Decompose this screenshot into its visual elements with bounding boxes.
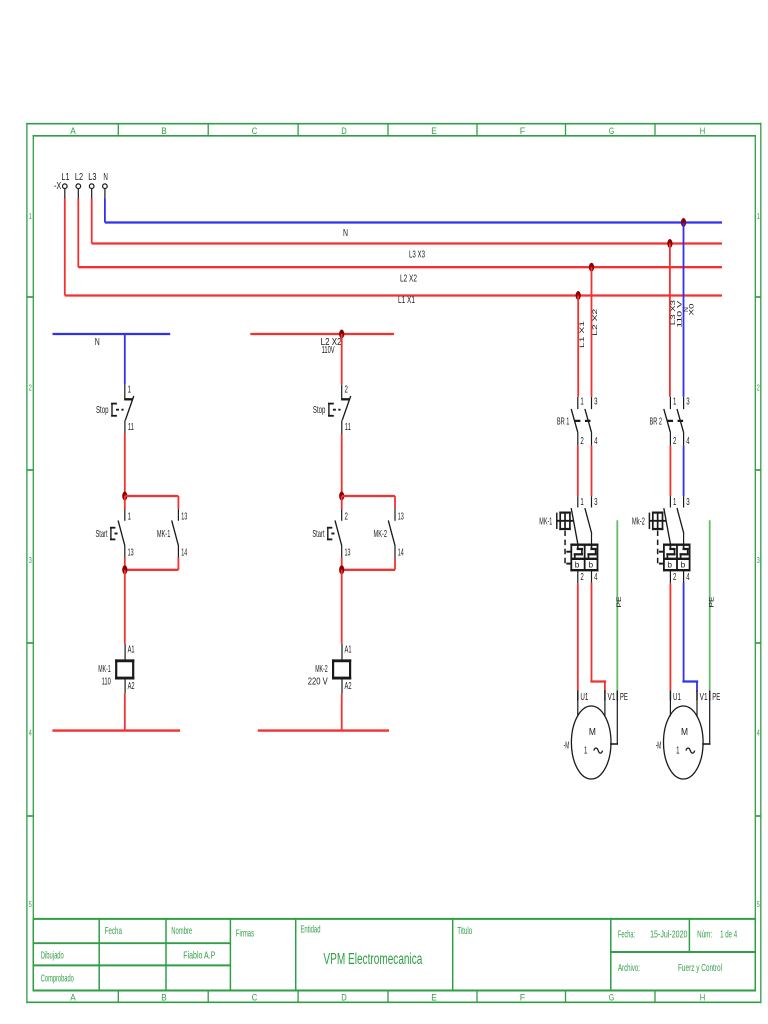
svg-text:2: 2 bbox=[29, 383, 32, 393]
wire Start to lower junction bbox=[124, 558, 126, 570]
title block outline bbox=[33, 918, 757, 920]
wire aux branch to lower junction bbox=[177, 558, 179, 570]
svg-text:N: N bbox=[343, 228, 348, 239]
wire junction to coil bbox=[124, 570, 126, 644]
contactor coil MK-2 pin A2 bbox=[341, 678, 343, 693]
contactor Mk-2 blade pole 1 bbox=[664, 508, 671, 545]
title block row lines left bbox=[33, 942, 230, 944]
motor terminal PE bbox=[616, 691, 618, 701]
contactor coil MK-1 box bbox=[115, 659, 134, 662]
motor lead U1 bbox=[669, 701, 671, 717]
svg-text:1: 1 bbox=[757, 211, 760, 221]
pushbutton Start blade bbox=[118, 520, 125, 546]
svg-text:H: H bbox=[700, 126, 706, 136]
junction on L3 X3 bus bbox=[667, 239, 672, 248]
motor lead PE bbox=[709, 701, 711, 745]
junction on L2 X2 bus bbox=[589, 263, 594, 272]
wire overload to motor U1 bbox=[577, 583, 579, 690]
svg-text:4: 4 bbox=[594, 436, 598, 447]
thermal overload heater element pole 1 bbox=[669, 545, 671, 549]
svg-text:4: 4 bbox=[686, 572, 690, 583]
thermal overload pin 2 bbox=[577, 570, 579, 583]
svg-text:B: B bbox=[161, 126, 167, 136]
control bus top (L2 X2) bbox=[250, 333, 394, 335]
thermal overload heater element pole 2 bbox=[683, 545, 685, 549]
motor lead V1 bbox=[696, 701, 698, 717]
svg-text:Fiablo A.P: Fiablo A.P bbox=[183, 951, 215, 962]
svg-text:X0: X0 bbox=[689, 303, 696, 316]
wire Stop to junction bbox=[124, 434, 126, 496]
bus N horizontal bbox=[105, 221, 722, 223]
pushbutton Stop bottom lead pin 11 bbox=[341, 420, 343, 434]
wire bus to Stop bbox=[341, 334, 343, 385]
junction on control bus bbox=[339, 330, 344, 339]
svg-text:110: 110 bbox=[102, 677, 111, 688]
svg-text:U1: U1 bbox=[580, 692, 588, 703]
svg-text:13: 13 bbox=[345, 547, 351, 558]
svg-text:G: G bbox=[609, 992, 615, 1002]
svg-text:b: b bbox=[667, 559, 672, 569]
pushbutton Stop blade bbox=[125, 396, 134, 420]
auxiliary contact MK-1 pin 13 bbox=[177, 509, 179, 521]
wire L1 X1 drop to BR 1 bbox=[577, 296, 579, 397]
breaker BR 2 linkage bbox=[668, 420, 684, 422]
svg-text:14: 14 bbox=[181, 547, 187, 558]
motor terminal U1 bbox=[577, 691, 579, 701]
junction on L1 X1 bus bbox=[576, 291, 581, 300]
svg-text:Nombre: Nombre bbox=[171, 926, 192, 937]
control bus bottom bbox=[52, 729, 180, 731]
svg-text:VPM Electromecanica: VPM Electromecanica bbox=[323, 951, 422, 968]
wire overload to motor U1 bbox=[669, 583, 671, 690]
svg-text:F: F bbox=[520, 992, 526, 1002]
svg-text:Comprobado: Comprobado bbox=[41, 974, 74, 985]
svg-text:1 de 4: 1 de 4 bbox=[720, 930, 737, 941]
svg-text:MK-1: MK-1 bbox=[539, 516, 552, 527]
svg-text:11: 11 bbox=[345, 422, 351, 433]
breaker BR 1 pole 2 pin 3 bbox=[591, 397, 593, 409]
wire PE protective earth bbox=[616, 520, 618, 690]
wire breaker to contactor pole 1 bbox=[669, 446, 671, 497]
contactor MK-1 blade pole 2 bbox=[585, 508, 592, 533]
svg-text:3: 3 bbox=[686, 497, 690, 508]
wire coil to bottom bus bbox=[124, 693, 126, 730]
contactor coil MK-1 pin A1 bbox=[124, 644, 126, 661]
title block row line right bbox=[611, 951, 756, 953]
row divider ticks right band bbox=[755, 296, 761, 298]
svg-text:3: 3 bbox=[594, 497, 598, 508]
pushbutton Start (NO) pin 2 bbox=[341, 509, 343, 521]
auxiliary contact MK-2 blade bbox=[388, 520, 395, 546]
svg-text:13: 13 bbox=[398, 511, 404, 522]
breaker BR 1 blade pole 1 bbox=[571, 409, 578, 433]
svg-text:A: A bbox=[70, 992, 76, 1002]
pushbutton Stop bottom lead pin 11 bbox=[124, 420, 126, 434]
auxiliary contact MK-2 pin 13 bbox=[394, 509, 396, 521]
motor lead U1 bbox=[577, 701, 579, 717]
breaker BR 2 pole 2 pin 3 bbox=[683, 397, 685, 409]
contactor Mk-2 trip linkage dashed bbox=[657, 531, 659, 564]
svg-text:13: 13 bbox=[181, 511, 187, 522]
svg-text:E: E bbox=[431, 126, 437, 136]
svg-text:1: 1 bbox=[29, 211, 32, 221]
svg-text:C: C bbox=[252, 126, 258, 136]
svg-text:M: M bbox=[589, 727, 596, 738]
contactor Mk-2 blade pole 2 bbox=[677, 508, 684, 533]
wire L1 vertical from terminal bbox=[64, 199, 66, 296]
wire L2 vertical from terminal bbox=[77, 199, 79, 268]
bus L2 X2 horizontal bbox=[78, 266, 722, 268]
svg-text:4: 4 bbox=[686, 436, 690, 447]
svg-text:L3 X3: L3 X3 bbox=[409, 250, 425, 261]
svg-text:BR 2: BR 2 bbox=[650, 416, 663, 427]
pushbutton Start bottom lead pin 13 bbox=[341, 546, 343, 558]
auxiliary contact MK-1 blade bbox=[172, 520, 179, 546]
svg-text:4: 4 bbox=[29, 728, 32, 738]
pushbutton Start blade bbox=[335, 520, 342, 546]
wire aux branch to lower junction bbox=[394, 558, 396, 570]
breaker BR 2 pin 4 bbox=[683, 433, 685, 446]
motor terminal V1 bbox=[696, 691, 698, 701]
wire junction to aux branch bbox=[342, 495, 395, 497]
auxiliary contact MK-1 pin 14 bbox=[177, 546, 179, 558]
svg-text:Mk-2: Mk-2 bbox=[632, 516, 645, 527]
svg-text:b: b bbox=[681, 559, 686, 569]
pushbutton Start actuator bbox=[328, 527, 332, 529]
svg-text:4: 4 bbox=[757, 728, 760, 738]
svg-text:E: E bbox=[431, 992, 437, 1002]
svg-text:A2: A2 bbox=[128, 681, 135, 692]
svg-text:L1: L1 bbox=[61, 172, 69, 183]
pushbutton Start bottom lead pin 13 bbox=[124, 546, 126, 558]
wire PE protective earth bbox=[709, 520, 711, 690]
svg-text:L3: L3 bbox=[88, 172, 96, 183]
svg-text:D: D bbox=[341, 126, 347, 136]
thermal overload heater element pole 2 bbox=[591, 545, 593, 549]
contactor MK-1 operator box bbox=[556, 513, 558, 529]
motor lead PE bbox=[616, 701, 618, 745]
svg-text:MK-2: MK-2 bbox=[374, 529, 388, 540]
svg-text:Núm:: Núm: bbox=[697, 930, 712, 941]
pushbutton Stop actuator bbox=[112, 403, 116, 405]
breaker BR 2 pin 2 bbox=[669, 433, 671, 446]
contactor MK-1 blade pole 1 bbox=[571, 508, 578, 545]
svg-text:3: 3 bbox=[29, 555, 32, 565]
contactor Mk-2 pole 2 pin 3 bbox=[683, 496, 685, 507]
svg-text:B: B bbox=[161, 992, 167, 1002]
breaker BR 1 pole 1 pin 1 bbox=[577, 397, 579, 409]
contactor MK-1 pole 2 pin 3 bbox=[591, 496, 593, 507]
svg-text:1: 1 bbox=[673, 497, 677, 508]
motor lead V1 bbox=[604, 701, 606, 717]
wire coil to bottom bus bbox=[341, 693, 343, 730]
title block divider Num cell bbox=[688, 919, 690, 952]
svg-text:PE: PE bbox=[620, 692, 628, 703]
svg-text:1: 1 bbox=[673, 397, 677, 408]
svg-text:C: C bbox=[252, 992, 258, 1002]
row divider ticks left band bbox=[27, 296, 33, 298]
svg-text:Stop: Stop bbox=[96, 405, 109, 416]
svg-text:Stop: Stop bbox=[313, 405, 326, 416]
svg-text:A1: A1 bbox=[345, 644, 352, 655]
svg-text:V1: V1 bbox=[608, 692, 616, 703]
wire bus to Stop bbox=[124, 334, 126, 385]
svg-text:U1: U1 bbox=[673, 692, 681, 703]
column divider ticks top band bbox=[117, 124, 119, 136]
junction node above Start bbox=[339, 492, 344, 501]
page border outer frame bbox=[26, 123, 761, 125]
junction on N bus bbox=[681, 218, 686, 227]
wire junction down bbox=[341, 496, 343, 509]
svg-text:1: 1 bbox=[580, 397, 584, 408]
svg-text:MK-1: MK-1 bbox=[98, 664, 111, 675]
svg-text:F: F bbox=[520, 126, 526, 136]
breaker BR 1 blade pole 2 bbox=[585, 409, 592, 433]
svg-text:G: G bbox=[609, 126, 615, 136]
wire L3 vertical from terminal bbox=[91, 199, 93, 244]
svg-text:110V: 110V bbox=[322, 345, 335, 356]
pushbutton Stop actuator bbox=[329, 403, 333, 405]
svg-text:Archivo:: Archivo: bbox=[618, 963, 640, 974]
wire breaker to contactor pole 2 bbox=[683, 446, 685, 497]
wire breaker to contactor pole 1 bbox=[577, 446, 579, 497]
breaker BR 2 blade pole 1 bbox=[664, 409, 671, 433]
svg-text:1: 1 bbox=[584, 745, 588, 756]
motor terminal U1 bbox=[669, 691, 671, 701]
svg-text:2: 2 bbox=[757, 383, 760, 393]
svg-text:2: 2 bbox=[345, 511, 349, 522]
svg-text:3: 3 bbox=[686, 397, 690, 408]
svg-text:N: N bbox=[103, 172, 108, 183]
svg-text:3: 3 bbox=[594, 397, 598, 408]
svg-text:15-Jul-2020: 15-Jul-2020 bbox=[650, 930, 688, 941]
svg-text:L1 X1: L1 X1 bbox=[398, 295, 415, 306]
column divider ticks bottom band bbox=[117, 991, 119, 1003]
thermal overload pin 4 bbox=[591, 570, 593, 583]
wire junction down bbox=[124, 496, 126, 509]
svg-text:L2 X2: L2 X2 bbox=[592, 308, 599, 336]
svg-text:D: D bbox=[341, 992, 347, 1002]
svg-text:b: b bbox=[575, 559, 580, 569]
pushbutton Stop (NC) pin 2 bbox=[341, 385, 343, 400]
svg-text:M: M bbox=[681, 727, 688, 738]
wire overload to motor V1 bbox=[683, 583, 685, 681]
thermal overload relay box bbox=[570, 544, 598, 546]
breaker BR 1 linkage bbox=[575, 420, 591, 422]
svg-text:L2: L2 bbox=[75, 172, 83, 183]
wire N vertical from terminal bbox=[104, 199, 106, 223]
wire breaker to contactor pole 2 bbox=[591, 446, 593, 497]
svg-text:PE: PE bbox=[712, 692, 720, 703]
svg-text:A2: A2 bbox=[345, 681, 352, 692]
pushbutton Stop (NC) pin 1 bbox=[124, 385, 126, 400]
svg-text:Start: Start bbox=[312, 529, 324, 540]
control bus top (N) bbox=[53, 333, 171, 335]
svg-text:MK-1: MK-1 bbox=[157, 529, 171, 540]
svg-text:b: b bbox=[589, 559, 594, 569]
pushbutton Stop blade bbox=[342, 396, 351, 420]
contactor coil MK-2 pin A1 bbox=[341, 644, 343, 661]
svg-text:1: 1 bbox=[128, 385, 132, 396]
svg-text:Entidad: Entidad bbox=[301, 925, 321, 936]
svg-text:MK-2: MK-2 bbox=[315, 664, 328, 675]
thermal overload pin 2 bbox=[669, 570, 671, 583]
breaker BR 2 pole 1 pin 1 bbox=[669, 397, 671, 409]
contactor coil MK-2 box bbox=[332, 659, 351, 662]
contactor MK-1 pole 1 pin 1 bbox=[577, 496, 579, 507]
svg-text:2: 2 bbox=[345, 385, 349, 396]
svg-text:1: 1 bbox=[676, 745, 680, 756]
bus L3 X3 horizontal bbox=[92, 242, 722, 244]
motor terminal PE bbox=[709, 691, 711, 701]
thermal overload relay box bbox=[663, 544, 691, 546]
wire L2 X2 drop to BR 1 bbox=[591, 267, 593, 397]
svg-text:14: 14 bbox=[398, 547, 404, 558]
svg-text:L2 X2: L2 X2 bbox=[400, 274, 417, 285]
svg-text:Dibujado: Dibujado bbox=[41, 951, 64, 962]
svg-text:-M: -M bbox=[564, 740, 570, 751]
page border inner frame bbox=[33, 135, 756, 137]
svg-text:2: 2 bbox=[673, 436, 677, 447]
svg-text:11: 11 bbox=[128, 422, 134, 433]
svg-text:110 V: 110 V bbox=[676, 300, 683, 328]
motor -M circle bbox=[571, 706, 611, 779]
bus L1 X1 horizontal bbox=[65, 294, 722, 296]
svg-text:PE: PE bbox=[709, 596, 716, 608]
svg-text:H: H bbox=[700, 992, 706, 1002]
control bus bottom bbox=[258, 729, 389, 731]
svg-text:A1: A1 bbox=[128, 644, 135, 655]
motor -M circle bbox=[664, 706, 704, 779]
motor tilde sine symbol bbox=[686, 748, 695, 753]
thermal overload pin 4 bbox=[683, 570, 685, 583]
svg-text:A: A bbox=[70, 126, 76, 136]
svg-text:3: 3 bbox=[757, 555, 760, 565]
motor tilde sine symbol bbox=[594, 748, 603, 753]
wire overload to motor V1 bbox=[591, 583, 593, 681]
svg-text:BR 1: BR 1 bbox=[557, 416, 570, 427]
contactor coil MK-1 pin A2 bbox=[124, 678, 126, 693]
wire Stop to junction bbox=[341, 434, 343, 496]
contactor Mk-2 operator box bbox=[648, 513, 650, 529]
svg-text:220 V: 220 V bbox=[308, 677, 328, 688]
svg-text:5: 5 bbox=[757, 899, 760, 909]
svg-text:V1: V1 bbox=[700, 692, 708, 703]
svg-text:Fuerz y Control: Fuerz y Control bbox=[678, 963, 722, 974]
contactor MK-1 trip linkage dashed bbox=[564, 531, 566, 564]
svg-text:2: 2 bbox=[580, 572, 584, 583]
wire Start to lower junction bbox=[341, 558, 343, 570]
svg-text:N: N bbox=[95, 337, 100, 348]
auxiliary contact MK-2 pin 14 bbox=[394, 546, 396, 558]
pushbutton Start actuator bbox=[111, 527, 115, 529]
svg-text:4: 4 bbox=[594, 572, 598, 583]
pushbutton Start (NO) pin 1 bbox=[124, 509, 126, 521]
wire N drop to BR 2 bbox=[683, 223, 685, 397]
motor terminal V1 bbox=[604, 691, 606, 701]
svg-text:Start: Start bbox=[96, 529, 108, 540]
wire L3 X3 drop to BR 2 bbox=[669, 244, 671, 397]
contactor Mk-2 pole 1 pin 1 bbox=[669, 496, 671, 507]
breaker BR 1 pin 4 bbox=[591, 433, 593, 446]
svg-text:13: 13 bbox=[128, 547, 134, 558]
svg-text:5: 5 bbox=[29, 899, 32, 909]
junction node above Start bbox=[122, 492, 127, 501]
svg-text:1: 1 bbox=[580, 497, 584, 508]
title block vertical dividers bbox=[98, 919, 100, 991]
breaker BR 2 blade pole 2 bbox=[677, 409, 684, 433]
svg-text:1: 1 bbox=[128, 511, 132, 522]
svg-text:PE: PE bbox=[616, 596, 623, 608]
wire junction to aux branch bbox=[125, 495, 179, 497]
thermal overload heater element pole 1 bbox=[577, 545, 579, 549]
breaker BR 1 pin 2 bbox=[577, 433, 579, 446]
junction node below Start bbox=[122, 565, 127, 574]
svg-text:2: 2 bbox=[673, 572, 677, 583]
svg-text:-X: -X bbox=[54, 181, 61, 192]
svg-text:L1 X1: L1 X1 bbox=[579, 320, 586, 348]
svg-text:2: 2 bbox=[580, 436, 584, 447]
svg-text:Fecha:: Fecha: bbox=[618, 930, 635, 941]
svg-text:-M: -M bbox=[656, 740, 662, 751]
wire junction to coil bbox=[341, 570, 343, 644]
junction node below Start bbox=[339, 565, 344, 574]
svg-text:Titulo: Titulo bbox=[457, 926, 472, 937]
svg-text:Fecha: Fecha bbox=[105, 926, 122, 937]
svg-text:Firmas: Firmas bbox=[236, 929, 254, 940]
